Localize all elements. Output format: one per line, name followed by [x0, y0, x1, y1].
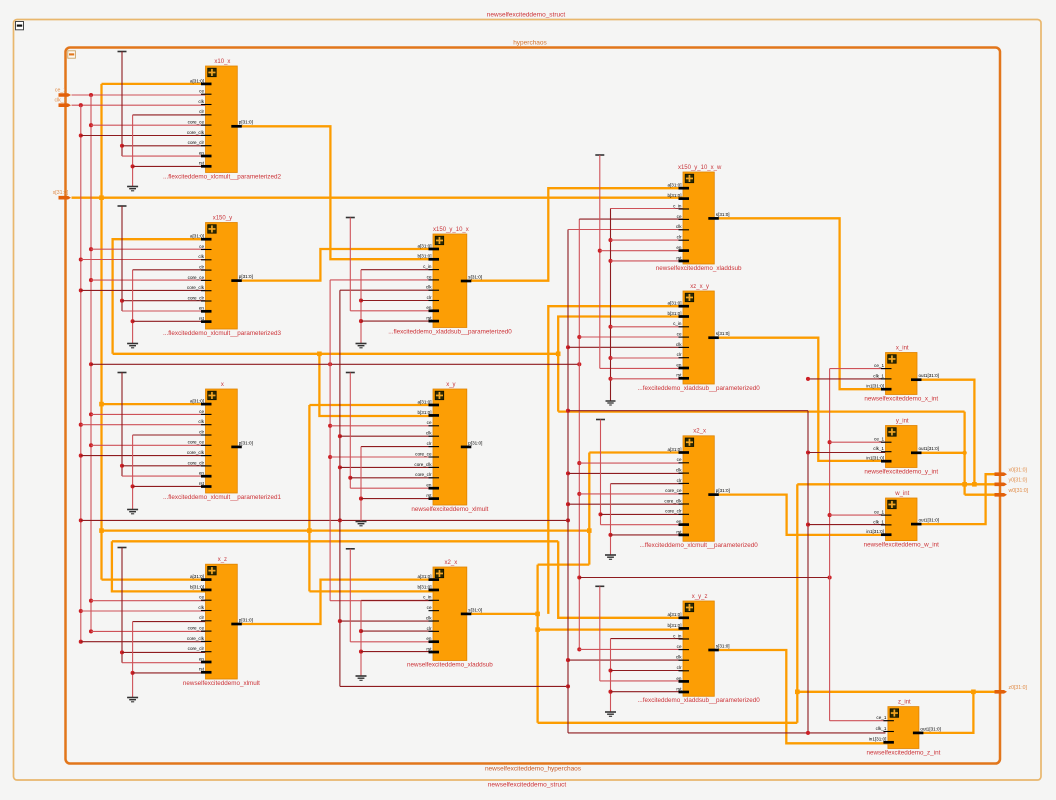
svg-text:clk: clk: [198, 605, 204, 610]
svg-text:p[31:0]: p[31:0]: [468, 440, 482, 445]
svg-text:ce: ce: [677, 332, 682, 337]
bus wire z to x_z b: [112, 541, 206, 591]
svg-text:clr: clr: [199, 265, 204, 270]
bus wire y bus y353: [113, 353, 559, 355]
bus wire z_int out1 to z0: [917, 692, 973, 733]
svg-text:hyperchaos: hyperchaos: [513, 40, 547, 47]
svg-text:core_clk: core_clk: [187, 285, 205, 290]
svg-text:en: en: [199, 150, 205, 155]
bus wire x150_y_10_x s to adder a: [467, 188, 683, 281]
svg-text:newselfexciteddemo_xlmult: newselfexciteddemo_xlmult: [411, 506, 488, 513]
ground x2_x col2: [361, 599, 433, 601]
block z_int: [866, 699, 940, 756]
wire x2_x(col3) clk: [566, 471, 570, 475]
bus wire z bus y541: [112, 540, 558, 542]
svg-text:clk_1: clk_1: [876, 726, 887, 731]
wire x150_y_10_x ce: [330, 279, 433, 281]
svg-text:core_clr: core_clr: [665, 509, 682, 514]
block x150_y_10_x: [388, 227, 512, 335]
port x[31:0]: [59, 196, 72, 200]
bus wire x2_x(col3) p to w_int in1: [714, 495, 885, 535]
svg-text:...fexciteddemo_xladdsub__para: ...fexciteddemo_xladdsub__parameterized0: [638, 697, 761, 704]
wire y_int clk_1: [806, 450, 810, 454]
wire x_int ce_1: [830, 368, 886, 370]
wire adder_w clk: [568, 229, 683, 231]
svg-text:core_clr: core_clr: [188, 295, 205, 300]
wire x core_clk: [79, 454, 83, 458]
bus wire x10_x a feed: [102, 83, 206, 85]
svg-text:clr: clr: [677, 352, 682, 357]
svg-text:p[31:0]: p[31:0]: [239, 274, 253, 279]
wire x150_y core_ce: [89, 278, 93, 282]
svg-text:c_in: c_in: [673, 203, 682, 208]
wire x2_x(col3) core_clk: [566, 502, 570, 506]
svg-text:core_ce: core_ce: [188, 120, 205, 125]
svg-text:p[31:0]: p[31:0]: [239, 120, 253, 125]
block x_int: [864, 345, 939, 402]
svg-text:a[31:0]: a[31:0]: [667, 612, 681, 617]
svg-text:out1[31:0]: out1[31:0]: [919, 373, 939, 378]
svg-text:ce_1: ce_1: [55, 87, 66, 93]
bus wire xz_x_y a feed: [548, 306, 683, 614]
svg-text:x2_x: x2_x: [445, 560, 458, 566]
bus wire 150y net from x150_y p: [237, 249, 433, 281]
wire x_z ce: [89, 599, 93, 603]
svg-text:clk: clk: [676, 342, 682, 347]
svg-text:b[31:0]: b[31:0]: [667, 193, 681, 198]
svg-text:clr: clr: [677, 665, 682, 670]
svg-text:en: en: [426, 305, 432, 310]
svg-text:newselfexciteddemo_y_int: newselfexciteddemo_y_int: [864, 468, 938, 475]
svg-text:a[31:0]: a[31:0]: [417, 399, 431, 404]
wire z_int clk_1 junction: [806, 731, 810, 735]
svg-text:x150_y_10_x_w: x150_y_10_x_w: [678, 165, 722, 171]
svg-text:...fexciteddemo_xladdsub__para: ...fexciteddemo_xladdsub__parameterized0: [638, 385, 761, 392]
svg-text:s[31:0]: s[31:0]: [716, 331, 730, 336]
svg-text:a[31:0]: a[31:0]: [190, 78, 204, 83]
svg-text:clk_1: clk_1: [873, 373, 884, 378]
vcc rail x2_x col3: [596, 419, 605, 421]
svg-text:in1[31:0]: in1[31:0]: [866, 456, 884, 461]
svg-text:rst: rst: [426, 316, 432, 321]
svg-text:z0[31:0]: z0[31:0]: [1009, 685, 1028, 691]
svg-text:y_int: y_int: [896, 418, 909, 424]
svg-text:s[31:0]: s[31:0]: [468, 274, 482, 279]
svg-text:b[31:0]: b[31:0]: [417, 410, 431, 415]
ground x_y: [361, 446, 433, 448]
svg-text:newselfexciteddemo_w_int: newselfexciteddemo_w_int: [864, 541, 940, 548]
svg-text:newselfexciteddemo_x_int: newselfexciteddemo_x_int: [864, 395, 938, 402]
wire x10_x core_ce: [89, 123, 93, 127]
svg-text:core_clk: core_clk: [187, 450, 205, 455]
svg-text:z_int: z_int: [898, 699, 911, 705]
svg-text:c_in: c_in: [673, 633, 682, 638]
svg-text:ce: ce: [427, 605, 432, 610]
svg-text:out1[31:0]: out1[31:0]: [920, 726, 940, 731]
wire z_int clk_1 feed: [568, 732, 886, 734]
wire x_y core_ce: [328, 455, 332, 459]
block x150_y_10_x_w: [656, 165, 742, 272]
wire z_int ce_1: [830, 720, 888, 722]
svg-text:b[31:0]: b[31:0]: [667, 311, 681, 316]
ground x10_x: [133, 114, 206, 116]
svg-text:rst: rst: [676, 255, 682, 260]
block x: [163, 382, 281, 501]
svg-text:ce: ce: [677, 214, 682, 219]
svg-text:ce: ce: [677, 457, 682, 462]
svg-text:en: en: [426, 483, 432, 488]
svg-text:a[31:0]: a[31:0]: [667, 183, 681, 188]
svg-text:in1[31:0]: in1[31:0]: [866, 384, 884, 389]
port x0[31:0]: [995, 472, 1008, 476]
svg-text:newselfexciteddemo_xladdsub: newselfexciteddemo_xladdsub: [656, 265, 742, 272]
wire xz_x_y ce: [577, 335, 581, 339]
block w_int: [864, 491, 940, 549]
ground x2_x col3: [611, 483, 684, 485]
wire clk vertical col2: [339, 290, 341, 686]
block x_y: [411, 382, 488, 513]
svg-text:x[31:0]: x[31:0]: [53, 190, 69, 196]
svg-text:w0[31:0]: w0[31:0]: [1009, 488, 1029, 494]
wire y_int ce_1: [828, 440, 832, 444]
svg-text:rst: rst: [199, 667, 205, 672]
wire ce vertical col3: [578, 219, 580, 649]
bus wire x2_x(col3) a branch left: [538, 563, 590, 565]
vcc rail x_y: [346, 372, 355, 374]
ground x150_y: [133, 269, 206, 271]
svg-text:...ffexciteddemo_xlcmult__para: ...ffexciteddemo_xlcmult__parameterized0: [640, 542, 759, 549]
bus wire x to x2_x(col3) a: [588, 453, 590, 565]
wire x2_x(col3) core_ce: [577, 492, 581, 496]
wire ce long y577: [577, 575, 581, 579]
svg-text:core_clr: core_clr: [188, 140, 205, 145]
svg-text:rst: rst: [199, 481, 205, 486]
svg-text:x_z: x_z: [218, 557, 227, 563]
ground x150_y_10_x: [361, 269, 433, 271]
wire ce long y364: [89, 362, 93, 366]
bus wire y to x_y b: [319, 354, 433, 416]
svg-text:clr: clr: [199, 109, 204, 114]
svg-text:ce_1: ce_1: [874, 363, 884, 368]
wire x150_y_10_x clk: [340, 289, 433, 291]
wire x_int clk_1: [808, 378, 886, 380]
svg-text:newselfexciteddemo_xlmult: newselfexciteddemo_xlmult: [183, 680, 260, 687]
bus wire w0 port stub: [965, 494, 995, 496]
svg-text:core_clr: core_clr: [188, 646, 205, 651]
svg-text:clk: clk: [198, 419, 204, 424]
svg-text:en: en: [199, 471, 205, 476]
bus wire x bus horizontal y530: [102, 529, 590, 531]
wire xz_x_y clk: [566, 345, 570, 349]
block x2_x: [407, 560, 493, 669]
bus wire x_y_z s to z_int in1: [714, 650, 888, 743]
ground adder_w and xz_x_y: [611, 208, 684, 210]
wire adder_w ce: [579, 218, 683, 220]
wire x150_y clk: [79, 257, 83, 261]
vcc rail x150_y_10_x: [346, 217, 355, 219]
wire clk net vertical col1: [80, 105, 82, 642]
svg-text:newselfexciteddemo_struct: newselfexciteddemo_struct: [488, 782, 567, 789]
block x2_x_c3: [640, 429, 759, 549]
svg-text:clr: clr: [677, 478, 682, 483]
svg-text:x150_y: x150_y: [213, 215, 232, 221]
svg-text:a[31:0]: a[31:0]: [190, 399, 204, 404]
bus wire x[31:0] horizontal: [72, 197, 684, 199]
svg-text:rst: rst: [199, 316, 205, 321]
svg-text:b[31:0]: b[31:0]: [417, 584, 431, 589]
outer frame collapse box: [16, 22, 24, 30]
svg-text:a[31:0]: a[31:0]: [417, 574, 431, 579]
svg-text:core_ce: core_ce: [415, 451, 432, 456]
wire x_y ce: [328, 424, 332, 428]
svg-text:newselfexciteddemo_z_int: newselfexciteddemo_z_int: [866, 749, 940, 756]
svg-text:ce: ce: [427, 420, 432, 425]
bus wire z0 line: [797, 691, 994, 693]
svg-text:c_in: c_in: [423, 595, 432, 600]
svg-text:core_ce: core_ce: [665, 488, 682, 493]
block y_int: [864, 418, 939, 475]
ground x_z: [133, 621, 206, 623]
bus wire x_z a feed: [102, 578, 206, 580]
wire x_z core_ce: [89, 629, 93, 633]
svg-text:s[31:0]: s[31:0]: [716, 643, 730, 648]
svg-text:b[31:0]: b[31:0]: [417, 254, 431, 259]
wire w_int ce_1: [828, 513, 832, 517]
vcc rail x10_x: [118, 51, 127, 53]
svg-text:c_in: c_in: [423, 264, 432, 269]
svg-text:...flexciteddemo_xlcmult__para: ...flexciteddemo_xlcmult__parameterized1: [163, 494, 281, 501]
port ce_1: [59, 93, 72, 97]
wire clk vertical col3: [567, 230, 569, 733]
svg-text:a[31:0]: a[31:0]: [417, 243, 431, 248]
bus wire w adder s to x_int in1: [714, 218, 885, 389]
bus wire w_int out1 to x0: [917, 474, 995, 524]
ground x_y_z: [611, 638, 684, 640]
block x150_y: [163, 215, 281, 336]
block x_z: [183, 557, 260, 687]
svg-text:ce_1: ce_1: [876, 715, 886, 720]
inner frame hyperchaos: [66, 48, 1001, 764]
wire ce net vertical col1: [90, 95, 92, 631]
wire x_z core_clk: [79, 640, 83, 644]
vcc rail x: [118, 372, 127, 374]
wire x2_x(col2) clk: [338, 619, 342, 623]
svg-text:clr: clr: [427, 441, 432, 446]
svg-text:clk: clk: [676, 468, 682, 473]
vcc rail x_y_z: [595, 585, 604, 587]
bus wire x to x2_x(col2) b: [309, 590, 433, 592]
svg-text:clk: clk: [426, 431, 432, 436]
svg-text:clr: clr: [199, 429, 204, 434]
svg-text:rst: rst: [426, 646, 432, 651]
svg-text:clr: clr: [427, 626, 432, 631]
svg-text:rst: rst: [676, 529, 682, 534]
svg-text:x150_y_10_x: x150_y_10_x: [433, 227, 469, 233]
svg-text:b[31:0]: b[31:0]: [667, 623, 681, 628]
port y0[31:0]: [995, 483, 1008, 487]
svg-text:en: en: [676, 245, 682, 250]
svg-text:clr: clr: [677, 235, 682, 240]
bus wire y feedback vertical: [557, 354, 559, 412]
svg-text:rst: rst: [676, 373, 682, 378]
svg-text:clk: clk: [198, 99, 204, 104]
svg-text:rst: rst: [676, 686, 682, 691]
svg-text:x_y: x_y: [446, 382, 455, 388]
svg-text:clr: clr: [199, 615, 204, 620]
bus wire y to xz_x_y b: [558, 317, 683, 354]
svg-text:w_int: w_int: [894, 491, 909, 497]
bus wire y to x150_y a: [113, 239, 206, 354]
wire x10_x core_clk: [79, 133, 83, 137]
wire x_y_z ce: [577, 647, 581, 651]
block xz_x_y: [638, 284, 761, 392]
svg-text:x2_x: x2_x: [693, 429, 706, 435]
svg-text:out1[31:0]: out1[31:0]: [919, 518, 939, 523]
svg-text:core_clr: core_clr: [188, 460, 205, 465]
svg-text:clr: clr: [427, 295, 432, 300]
block x_y_z: [638, 594, 761, 704]
svg-text:ce_1: ce_1: [874, 510, 884, 515]
bus wire x to x_y a: [308, 405, 310, 591]
svg-text:newselfexciteddemo_hyperchaos: newselfexciteddemo_hyperchaos: [485, 766, 582, 773]
bus wire x2_x(col2) a from x_z p: [237, 580, 433, 624]
wire x_y clk: [338, 434, 342, 438]
svg-text:rst: rst: [426, 493, 432, 498]
port clk_1: [59, 103, 72, 107]
svg-text:core_clr: core_clr: [415, 472, 432, 477]
svg-text:a[31:0]: a[31:0]: [190, 234, 204, 239]
svg-text:core_clk: core_clk: [664, 498, 682, 503]
svg-text:clk: clk: [426, 285, 432, 290]
wire ce vertical col2: [329, 280, 331, 601]
bus wire y_int riser to w0: [963, 412, 965, 495]
bus wire w net vertical x797: [796, 484, 798, 723]
svg-text:clk: clk: [676, 655, 682, 660]
svg-text:en: en: [676, 362, 682, 367]
svg-text:clk: clk: [198, 254, 204, 259]
wire x_y_z clk: [566, 658, 570, 662]
bus wire z to x_y_z a: [558, 541, 683, 618]
svg-text:clk_1: clk_1: [873, 446, 884, 451]
wire clk_1 from port: [72, 104, 206, 106]
wire x_y core_clk: [338, 465, 342, 469]
wire x core_ce: [89, 443, 93, 447]
svg-text:ce: ce: [199, 409, 204, 414]
bus wire y_int out1: [917, 452, 965, 454]
bus wire x net vertical: [100, 84, 102, 580]
wire x2_x(col2) ce: [330, 600, 433, 602]
svg-text:...flexciteddemo_xlcmult__para: ...flexciteddemo_xlcmult__parameterized3: [163, 330, 281, 337]
wire x ce: [89, 412, 93, 416]
bus wire vertical x537: [536, 565, 538, 723]
svg-text:xz_x_y: xz_x_y: [690, 284, 709, 290]
wire ce vertical right: [829, 369, 831, 721]
svg-text:rst: rst: [199, 161, 205, 166]
wire x clk: [79, 423, 83, 427]
inner frame collapse box: [68, 51, 76, 58]
port w0[31:0]: [995, 493, 1008, 497]
svg-text:x_int: x_int: [896, 345, 909, 351]
svg-text:ce_1: ce_1: [874, 437, 884, 442]
svg-text:ce: ce: [677, 644, 682, 649]
svg-text:ce: ce: [199, 595, 204, 600]
svg-text:en: en: [199, 306, 205, 311]
svg-text:x: x: [221, 382, 224, 388]
bus wire 10x net from x10_x p: [237, 126, 433, 259]
vcc rail x150_y: [118, 205, 127, 207]
svg-text:clk: clk: [676, 224, 682, 229]
wire clk long y410: [566, 409, 570, 413]
svg-text:x_y_z: x_y_z: [692, 594, 708, 600]
bus wire x_int out1 to y0 junction: [917, 380, 974, 485]
bus wire x a feed: [102, 403, 206, 405]
bus wire y0 long line: [797, 483, 994, 485]
svg-text:newselfexciteddemo_struct: newselfexciteddemo_struct: [487, 12, 566, 19]
wire x150_y core_clk: [79, 288, 83, 292]
svg-text:core_ce: core_ce: [188, 626, 205, 631]
svg-text:s[31:0]: s[31:0]: [716, 212, 730, 217]
bus wire xz_x_y s to y_int in1: [714, 338, 885, 461]
svg-text:newselfexciteddemo_xladdsub: newselfexciteddemo_xladdsub: [407, 661, 493, 668]
svg-text:p[31:0]: p[31:0]: [239, 440, 253, 445]
svg-text:ce: ce: [199, 244, 204, 249]
bus wire z bus long y722: [538, 722, 798, 724]
bus wire y feedback long y411: [558, 410, 964, 412]
svg-text:clk_1: clk_1: [54, 98, 66, 104]
vcc rail x_z: [118, 547, 127, 549]
svg-text:p[31:0]: p[31:0]: [239, 617, 253, 622]
svg-text:en: en: [426, 636, 432, 641]
svg-text:p[31:0]: p[31:0]: [716, 488, 730, 493]
ground x: [133, 434, 206, 436]
wire x150_y ce: [89, 247, 93, 251]
svg-text:...flexciteddemo_xladdsub__par: ...flexciteddemo_xladdsub__parameterized…: [388, 328, 512, 335]
svg-text:clk: clk: [426, 615, 432, 620]
svg-text:in1[31:0]: in1[31:0]: [866, 529, 884, 534]
svg-text:in1[31:0]: in1[31:0]: [869, 737, 887, 742]
wire clk vertical right: [807, 411, 809, 734]
bus wire x2_x(col2) s output: [467, 613, 538, 615]
svg-text:core_ce: core_ce: [188, 275, 205, 280]
svg-text:core_ce: core_ce: [188, 440, 205, 445]
vcc rail adder_w and xz_x_y: [595, 154, 604, 156]
wire clk long y520: [79, 518, 83, 522]
svg-text:y0[31:0]: y0[31:0]: [1009, 478, 1028, 484]
wire x2_x(col3) ce: [577, 461, 581, 465]
wire clk long y686: [340, 685, 568, 687]
svg-text:x10_x: x10_x: [214, 59, 230, 65]
svg-text:ce: ce: [199, 89, 204, 94]
wire w_int clk_1: [806, 523, 810, 527]
svg-text:a[31:0]: a[31:0]: [667, 301, 681, 306]
block x10_x: [163, 59, 281, 181]
port z0[31:0]: [995, 690, 1008, 694]
svg-text:ce: ce: [427, 274, 432, 279]
wire x_z clk: [79, 609, 83, 613]
svg-text:s[31:0]: s[31:0]: [468, 607, 482, 612]
svg-text:en: en: [676, 676, 682, 681]
vcc rail x2_x col2: [346, 548, 355, 550]
svg-text:c_in: c_in: [673, 321, 682, 326]
wire ce_1 from port: [72, 94, 206, 96]
svg-text:core_clk: core_clk: [187, 636, 205, 641]
svg-text:...flexciteddemo_xlcmult__para: ...flexciteddemo_xlcmult__parameterized2: [163, 173, 281, 180]
svg-text:en: en: [199, 656, 205, 661]
svg-text:out1[31:0]: out1[31:0]: [919, 446, 939, 451]
svg-text:x0[31:0]: x0[31:0]: [1009, 468, 1028, 474]
svg-text:a[31:0]: a[31:0]: [667, 447, 681, 452]
svg-text:core_clk: core_clk: [414, 462, 432, 467]
